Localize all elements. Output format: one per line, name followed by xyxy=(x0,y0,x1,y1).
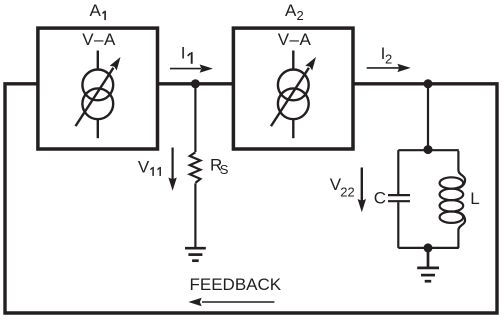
svg-text:2: 2 xyxy=(385,52,392,67)
svg-text:FEEDBACK: FEEDBACK xyxy=(190,275,282,294)
svg-text:V–A: V–A xyxy=(82,30,116,49)
svg-text:A: A xyxy=(90,1,102,20)
svg-text:V: V xyxy=(138,157,150,176)
svg-text:C: C xyxy=(374,188,386,207)
svg-text:V–A: V–A xyxy=(278,30,312,49)
svg-text:L: L xyxy=(470,189,479,208)
svg-text:A: A xyxy=(285,1,297,20)
svg-text:2: 2 xyxy=(297,8,304,23)
svg-text:22: 22 xyxy=(340,184,354,199)
svg-text:S: S xyxy=(220,162,229,177)
svg-text:I: I xyxy=(181,44,186,63)
